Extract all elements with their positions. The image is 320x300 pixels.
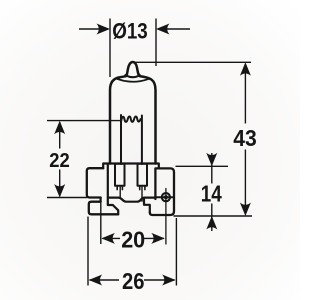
20 ext line left xyxy=(100,203,102,245)
svg-text:43: 43 xyxy=(233,125,257,151)
22 tick top / filament leader xyxy=(47,120,121,122)
22 arrowhead up xyxy=(54,121,65,135)
blade right inner leg to saddle xyxy=(141,186,143,201)
svg-text:20: 20 xyxy=(121,227,145,253)
dia13 arrowhead right (points left) xyxy=(156,24,170,35)
left step below wing xyxy=(99,198,101,202)
20 arrowhead right xyxy=(151,233,165,244)
arrowheads xyxy=(54,24,251,286)
left bottom tab xyxy=(89,202,118,215)
rivet center dot xyxy=(164,195,168,199)
26 arrowhead right xyxy=(162,275,176,286)
22 arrowhead down xyxy=(54,184,65,198)
43 dim line lower xyxy=(244,150,246,215)
right notch shelf xyxy=(144,198,150,213)
base top step right xyxy=(156,164,159,169)
blade terminal left xyxy=(115,164,125,186)
26 dim line xyxy=(90,279,175,281)
dia13 ext line right xyxy=(155,19,157,67)
glass bottom seal line xyxy=(110,162,156,164)
lead wire right xyxy=(141,116,143,165)
dimension linework xyxy=(47,19,252,286)
14 arrowhead down (above top ref line) xyxy=(206,153,217,167)
blade right contact legs xyxy=(140,186,145,190)
blade left inner leg to saddle xyxy=(119,186,121,198)
dome inner arc large xyxy=(118,79,149,82)
left wing clip xyxy=(87,168,103,197)
glass envelope outline with tip nipple xyxy=(110,62,156,164)
26 ext line left xyxy=(87,217,89,286)
filament coil xyxy=(121,116,140,121)
right wing bottom edge xyxy=(156,196,174,198)
dia13 arrowhead left (points right, tip at ext line) xyxy=(97,24,111,35)
26 arrowhead left xyxy=(89,275,103,286)
dia13 arrow line left xyxy=(79,28,108,30)
svg-text:22: 22 xyxy=(49,149,70,172)
svg-text:26: 26 xyxy=(122,268,145,294)
26 ext line right xyxy=(175,218,177,286)
rivet circle xyxy=(162,193,170,201)
43 dim line upper xyxy=(244,64,246,124)
blade terminal right xyxy=(138,164,148,186)
14 arrow tail bottom xyxy=(211,216,213,231)
20 dim line xyxy=(103,237,165,239)
lead wire left xyxy=(120,115,122,164)
base top step left xyxy=(103,164,110,169)
dome inner arc small xyxy=(125,75,139,77)
22 tick bottom xyxy=(47,197,87,199)
left wing inner edge xyxy=(108,164,118,214)
14 dim line mid xyxy=(211,166,213,216)
14 ref line top xyxy=(176,165,229,167)
rivet centerline xyxy=(165,189,167,245)
svg-text:14: 14 xyxy=(201,180,222,206)
22 dim line xyxy=(59,122,61,196)
43 arrowhead up xyxy=(240,62,251,76)
right wing and tab outline xyxy=(150,168,174,215)
43 arrowhead down xyxy=(240,203,251,217)
seat leader line xyxy=(174,215,253,217)
saddle bottom edge with center dip xyxy=(109,198,156,202)
14 arrow tail top xyxy=(211,153,213,166)
14 arrowhead up (below seat line) xyxy=(206,216,217,230)
svg-text:Ø13: Ø13 xyxy=(112,19,148,44)
tip leader line xyxy=(135,61,251,63)
blade left contact legs xyxy=(117,186,122,190)
20 arrowhead left xyxy=(101,233,115,244)
dia13 arrow line right xyxy=(158,28,190,30)
dia13 ext line left xyxy=(109,19,111,78)
